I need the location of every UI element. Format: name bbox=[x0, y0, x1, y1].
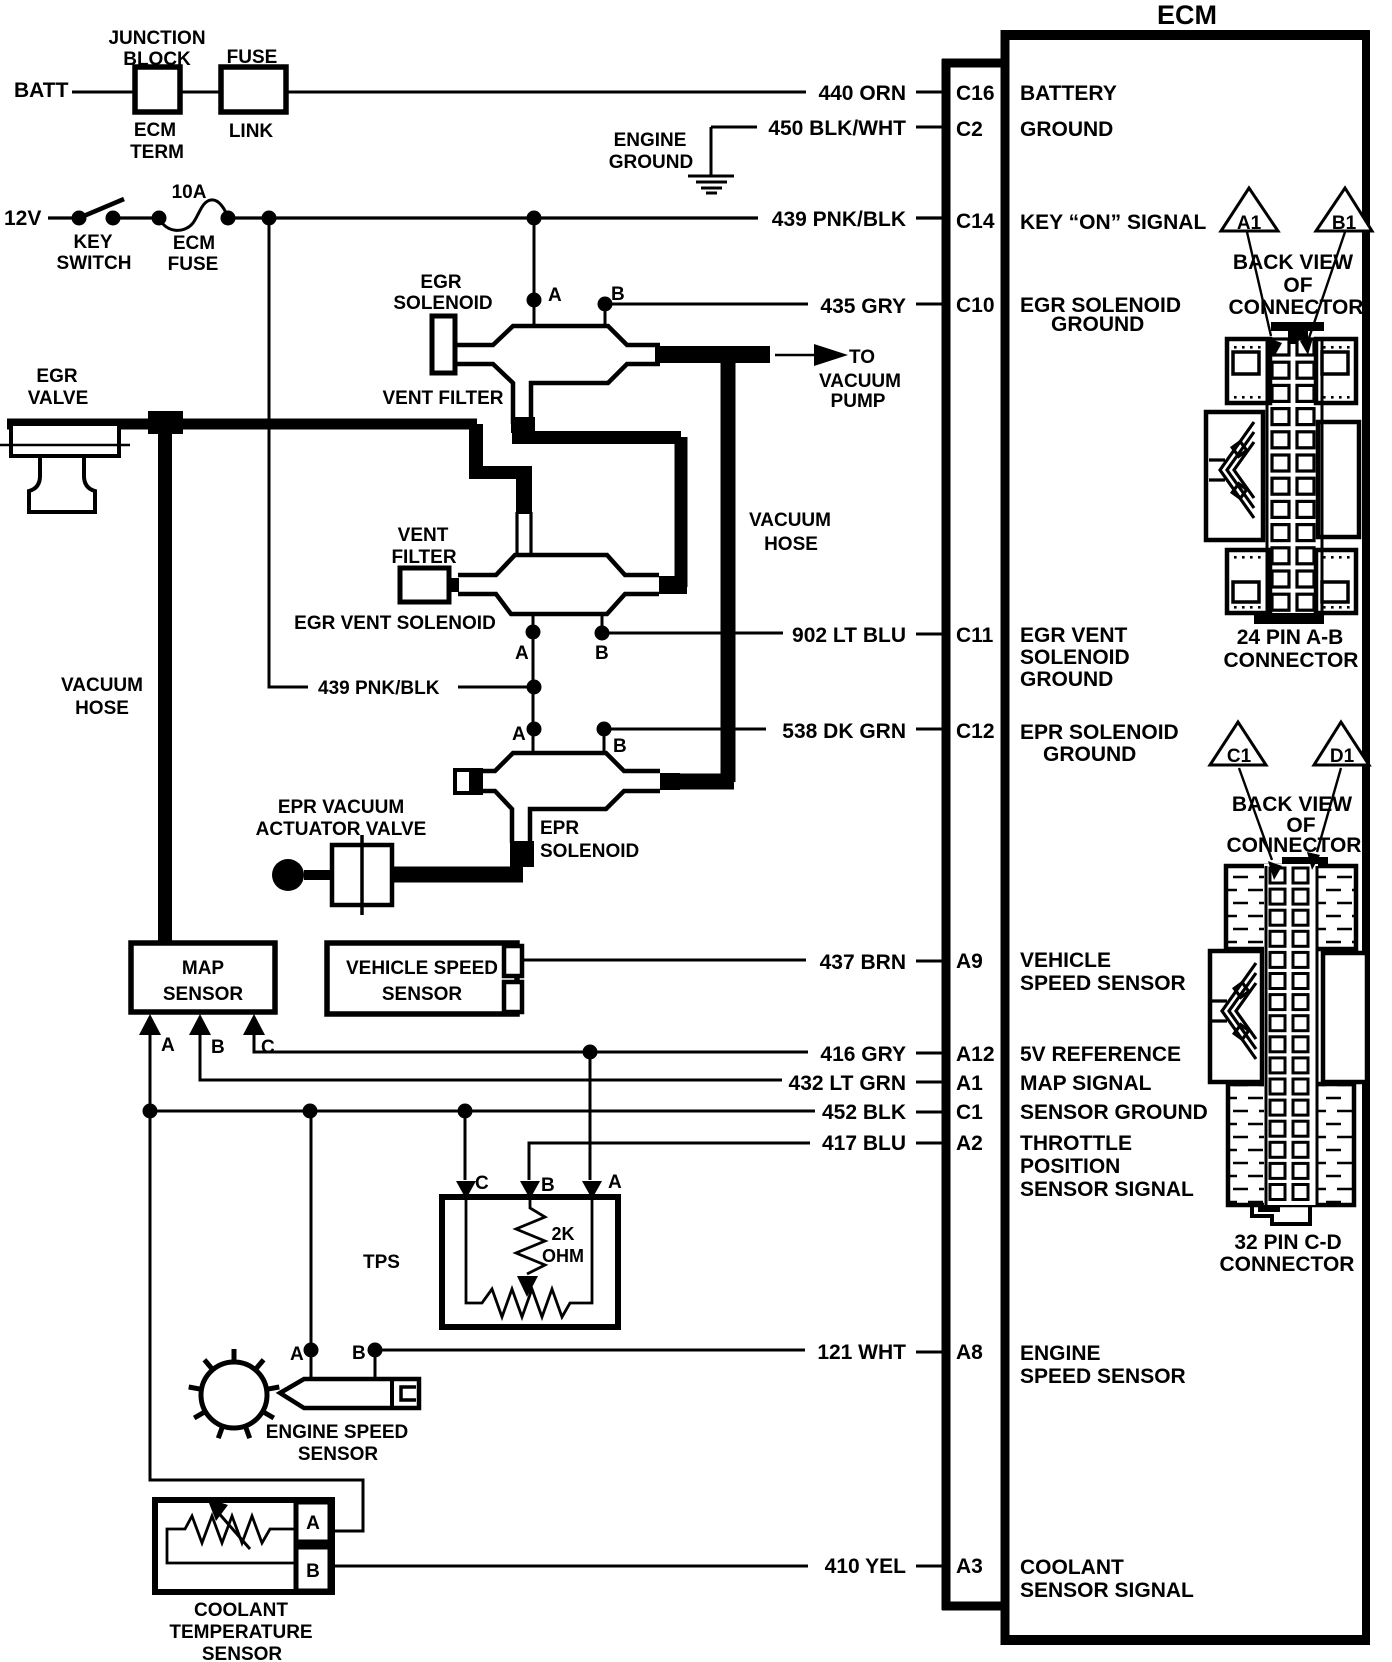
svg-text:VEHICLE: VEHICLE bbox=[1020, 949, 1111, 972]
junction dot at 465,1111 bbox=[458, 1104, 473, 1119]
svg-text:C11: C11 bbox=[956, 624, 994, 647]
32 pin: right latch block bbox=[1323, 953, 1367, 1082]
svg-text:B: B bbox=[352, 1343, 366, 1364]
vacuum hose: tee down right side to EPR solenoid bbox=[721, 348, 736, 782]
svg-text:SPEED SENSOR: SPEED SENSOR bbox=[1020, 1365, 1186, 1388]
EGR vent solenoid bbox=[458, 512, 659, 614]
svg-text:C2: C2 bbox=[956, 118, 983, 141]
vacuum hose: EGR valve top run bbox=[7, 419, 477, 430]
svg-text:OF: OF bbox=[1283, 274, 1312, 297]
junction dot at 150,1111 bbox=[143, 1104, 158, 1119]
svg-text:439 PNK/BLK: 439 PNK/BLK bbox=[772, 208, 906, 231]
24 pin: lower corner blocks bbox=[1227, 550, 1270, 613]
32 pin: center pin rows bbox=[1264, 864, 1318, 1205]
svg-text:CONNECTOR: CONNECTOR bbox=[1229, 296, 1364, 319]
coolant sensor variable resistor bbox=[167, 1516, 296, 1563]
svg-text:EGR VENT SOLENOID: EGR VENT SOLENOID bbox=[294, 613, 496, 634]
engine speed sensor pickup body bbox=[280, 1379, 419, 1408]
key switch lever bbox=[79, 199, 124, 218]
svg-text:24 PIN A-B: 24 PIN A-B bbox=[1237, 626, 1344, 649]
svg-text:SOLENOID: SOLENOID bbox=[1020, 646, 1130, 669]
svg-text:A1: A1 bbox=[956, 1072, 983, 1095]
svg-text:SOLENOID: SOLENOID bbox=[540, 841, 639, 862]
junction dot at 605,304 bbox=[598, 297, 613, 312]
junction dot at 534,687 bbox=[527, 680, 542, 695]
to-vacuum-pump arrow bbox=[775, 354, 816, 357]
svg-text:A: A bbox=[512, 724, 526, 745]
svg-text:LINK: LINK bbox=[229, 121, 274, 142]
svg-text:C14: C14 bbox=[956, 210, 995, 233]
wire engine speed sensor A vertical bbox=[310, 1111, 313, 1379]
svg-text:A1: A1 bbox=[1237, 213, 1262, 234]
junction dot at 310,1111 bbox=[303, 1104, 318, 1119]
svg-text:452 BLK: 452 BLK bbox=[822, 1101, 906, 1124]
svg-text:BLOCK: BLOCK bbox=[123, 49, 191, 70]
junction dot at 590,1052 bbox=[583, 1045, 598, 1060]
svg-text:CONNECTOR: CONNECTOR bbox=[1224, 649, 1359, 672]
svg-text:A2: A2 bbox=[956, 1132, 983, 1155]
svg-text:HOSE: HOSE bbox=[75, 698, 129, 719]
junction dot at 113,218 bbox=[106, 211, 121, 226]
svg-text:EPR VACUUM: EPR VACUUM bbox=[278, 797, 404, 818]
svg-text:C: C bbox=[261, 1037, 275, 1058]
32 pin: bottom tail bbox=[1252, 1205, 1310, 1224]
svg-text:B: B bbox=[211, 1037, 225, 1058]
svg-text:ENGINE SPEED: ENGINE SPEED bbox=[266, 1422, 409, 1443]
wire 12V to key switch bbox=[48, 216, 79, 219]
vent filter (EGR vent solenoid) bbox=[400, 568, 449, 602]
svg-text:VENT FILTER: VENT FILTER bbox=[382, 388, 503, 409]
svg-text:A: A bbox=[515, 643, 529, 664]
svg-text:A8: A8 bbox=[956, 1341, 983, 1364]
vehicle speed sensor bbox=[327, 943, 517, 1014]
triangle callout B1 bbox=[1316, 188, 1372, 231]
svg-text:BACK VIEW: BACK VIEW bbox=[1232, 793, 1352, 816]
svg-text:C1: C1 bbox=[1227, 746, 1252, 767]
svg-text:FUSE: FUSE bbox=[168, 254, 219, 275]
wire BATT to junction block bbox=[72, 91, 133, 94]
svg-text:C16: C16 bbox=[956, 82, 995, 105]
callout arrow B1 to connector bbox=[1309, 232, 1345, 338]
junction dot at 534,729 bbox=[527, 722, 542, 737]
svg-text:VACUUM: VACUUM bbox=[749, 510, 831, 531]
wire 452 BLK sensor ground (MAP A, engine speed A, TPS C to ECM C1) bbox=[150, 1034, 942, 1112]
TPS wiper track resistor bbox=[466, 1199, 592, 1317]
svg-text:EGR: EGR bbox=[36, 366, 77, 387]
svg-text:121 WHT: 121 WHT bbox=[817, 1341, 906, 1364]
svg-text:ECM: ECM bbox=[1157, 0, 1217, 30]
TPS (throttle position sensor) bbox=[442, 1197, 618, 1327]
junction dot at 375,1350 bbox=[368, 1343, 383, 1358]
svg-text:OHM: OHM bbox=[542, 1246, 584, 1266]
junction dot at 159,218 bbox=[152, 211, 167, 226]
svg-text:SENSOR GROUND: SENSOR GROUND bbox=[1020, 1101, 1208, 1124]
svg-text:THROTTLE: THROTTLE bbox=[1020, 1132, 1132, 1155]
svg-text:B: B bbox=[595, 643, 609, 664]
32 pin C-D connector (back view) bbox=[1210, 857, 1367, 1224]
svg-text:SENSOR SIGNAL: SENSOR SIGNAL bbox=[1020, 1178, 1194, 1201]
engine speed sensor gear bbox=[201, 1362, 267, 1428]
junction dot at 228,218 bbox=[221, 211, 236, 226]
svg-text:GROUND: GROUND bbox=[1020, 668, 1113, 691]
wire 440 ORN (fuse link to ECM C16) bbox=[288, 91, 942, 94]
24 pin: right latch block bbox=[1318, 422, 1359, 537]
svg-text:GROUND: GROUND bbox=[1043, 743, 1136, 766]
ECM box bbox=[1001, 30, 1010, 1645]
svg-text:A12: A12 bbox=[956, 1043, 995, 1066]
svg-text:SWITCH: SWITCH bbox=[57, 253, 132, 274]
svg-text:A: A bbox=[290, 1344, 304, 1365]
svg-text:VEHICLE SPEED: VEHICLE SPEED bbox=[346, 958, 498, 979]
svg-text:902 LT BLU: 902 LT BLU bbox=[792, 624, 906, 647]
wire 439 PNK/BLK (fuse to ECM C14) bbox=[228, 216, 942, 219]
svg-text:D1: D1 bbox=[1330, 746, 1355, 767]
svg-text:A3: A3 bbox=[956, 1555, 983, 1578]
svg-text:BACK VIEW: BACK VIEW bbox=[1233, 251, 1353, 274]
junction dot at 311,1350 bbox=[304, 1343, 319, 1358]
svg-text:437 BRN: 437 BRN bbox=[820, 951, 906, 974]
junction dot at 602,633 bbox=[595, 626, 610, 641]
wire 121 WHT (engine speed B to ECM A8) bbox=[375, 1350, 942, 1379]
vacuum hose: EPR solenoid bottom port to actuator valve bbox=[510, 841, 534, 867]
24 pin: left latch block with ribs bbox=[1206, 412, 1263, 540]
svg-text:SOLENOID: SOLENOID bbox=[393, 293, 492, 314]
svg-text:HOSE: HOSE bbox=[764, 534, 818, 555]
wire TPS C vertical bbox=[464, 1111, 467, 1180]
callout arrow A1 to connector bbox=[1247, 232, 1271, 336]
svg-text:10A: 10A bbox=[172, 182, 207, 203]
svg-text:SENSOR: SENSOR bbox=[202, 1644, 283, 1662]
svg-text:SENSOR: SENSOR bbox=[382, 984, 463, 1005]
TPS pin arrows C B A bbox=[456, 1181, 476, 1199]
svg-text:TPS: TPS bbox=[363, 1252, 400, 1273]
svg-text:FUSE: FUSE bbox=[227, 47, 278, 68]
engine ground symbol bbox=[688, 127, 734, 193]
svg-text:C: C bbox=[475, 1173, 489, 1194]
EPR vacuum actuator valve bbox=[272, 859, 304, 891]
junction dot at 79,218 bbox=[72, 211, 87, 226]
svg-text:ECM: ECM bbox=[173, 233, 215, 254]
svg-text:A: A bbox=[608, 1172, 622, 1193]
24 pin: center pin rows bbox=[1267, 341, 1322, 613]
MAP sensor bbox=[131, 943, 275, 1012]
vacuum hose: EGR solenoid bottom port to vent solenoid right port bbox=[511, 417, 535, 433]
svg-text:C1: C1 bbox=[956, 1101, 983, 1124]
svg-text:KEY “ON” SIGNAL: KEY “ON” SIGNAL bbox=[1020, 211, 1206, 234]
MAP pin arrows A B C bbox=[139, 1014, 161, 1035]
24 pin A-B connector (back view) bbox=[1206, 322, 1359, 624]
svg-text:A: A bbox=[548, 285, 562, 306]
svg-text:SENSOR SIGNAL: SENSOR SIGNAL bbox=[1020, 1579, 1194, 1602]
wire 902 LT BLU (vent solenoid B to ECM C11) bbox=[602, 614, 942, 634]
hose junction square on EGR valve run bbox=[148, 411, 183, 434]
wire 538 DK GRN (EPR solenoid B to ECM C12) bbox=[604, 729, 942, 753]
svg-text:SPEED SENSOR: SPEED SENSOR bbox=[1020, 972, 1186, 995]
svg-text:SENSOR: SENSOR bbox=[298, 1444, 379, 1465]
svg-text:450 BLK/WHT: 450 BLK/WHT bbox=[768, 117, 906, 140]
wire EGR solenoid pin A up to 12V line bbox=[533, 218, 536, 326]
svg-text:A: A bbox=[306, 1513, 320, 1534]
junction block (ECM TERM) bbox=[135, 67, 180, 112]
svg-text:CONNECTOR: CONNECTOR bbox=[1220, 1253, 1355, 1276]
triangle callout D1 bbox=[1314, 722, 1369, 765]
wire 410 YEL (coolant B to ECM A3) bbox=[331, 1565, 942, 1568]
wire EGR solenoid pin B to 435 GRY C10 bbox=[605, 304, 942, 326]
svg-text:KEY: KEY bbox=[73, 232, 112, 253]
wire junction block to fuse link bbox=[182, 91, 219, 94]
coolant temperature sensor bbox=[155, 1500, 332, 1592]
callout arrow C1 to connector bbox=[1239, 768, 1272, 860]
svg-text:ECM: ECM bbox=[134, 120, 176, 141]
wire MAP A down to coolant sensor A bbox=[150, 1111, 363, 1531]
vacuum hose: EGR solenoid output to tee bbox=[655, 346, 770, 363]
svg-text:432 LT GRN: 432 LT GRN bbox=[789, 1072, 906, 1095]
svg-text:COOLANT: COOLANT bbox=[194, 1600, 288, 1621]
wire 417 BLU throttle position signal (TPS B to ECM A2) bbox=[529, 1143, 942, 1180]
EPR solenoid bbox=[455, 753, 660, 843]
svg-text:5V REFERENCE: 5V REFERENCE bbox=[1020, 1043, 1181, 1066]
svg-text:VACUUM: VACUUM bbox=[61, 675, 143, 696]
svg-text:EPR: EPR bbox=[540, 818, 579, 839]
wire key switch to ECM fuse bbox=[113, 216, 159, 219]
svg-text:MAP SIGNAL: MAP SIGNAL bbox=[1020, 1072, 1152, 1095]
wire EGR vent solenoid pin A chain down to EPR solenoid pin A bbox=[532, 614, 535, 753]
junction dot at 604,729 bbox=[597, 722, 612, 737]
EGR solenoid bbox=[432, 316, 660, 424]
svg-text:32 PIN C-D: 32 PIN C-D bbox=[1234, 1231, 1341, 1254]
svg-text:B: B bbox=[306, 1561, 320, 1582]
vacuum hose: junction block to MAP sensor (left vertical) bbox=[158, 425, 172, 941]
svg-text:440 ORN: 440 ORN bbox=[818, 82, 906, 105]
svg-text:416 GRY: 416 GRY bbox=[820, 1043, 906, 1066]
svg-text:TO: TO bbox=[849, 347, 875, 368]
svg-text:B: B bbox=[611, 284, 625, 305]
svg-text:B: B bbox=[541, 1175, 555, 1196]
svg-text:MAP: MAP bbox=[182, 958, 225, 979]
wire 437 BRN (VSS to ECM A9) bbox=[523, 960, 942, 961]
svg-text:C10: C10 bbox=[956, 294, 995, 317]
wire 432 LT GRN map signal (MAP B to ECM A1) bbox=[200, 1034, 942, 1082]
wire 416 GRY 5V reference (MAP C / TPS A to ECM A12) bbox=[254, 1034, 942, 1053]
svg-text:COOLANT: COOLANT bbox=[1020, 1556, 1124, 1579]
triangle callout A1 bbox=[1221, 188, 1278, 231]
svg-text:2K: 2K bbox=[551, 1224, 574, 1244]
svg-text:EGR VENT: EGR VENT bbox=[1020, 624, 1128, 647]
wire 450 BLK/WHT (ground to ECM C2) bbox=[711, 126, 942, 129]
svg-text:410 YEL: 410 YEL bbox=[825, 1555, 907, 1578]
svg-text:ENGINE: ENGINE bbox=[614, 130, 687, 151]
svg-text:CONNECTOR: CONNECTOR bbox=[1227, 834, 1362, 857]
svg-text:JUNCTION: JUNCTION bbox=[108, 28, 205, 49]
wire MAP C vertical junction to TPS A bbox=[589, 1052, 592, 1180]
vacuum hose: staircase down to EGR vent solenoid top port bbox=[469, 424, 483, 466]
svg-text:A: A bbox=[161, 1035, 175, 1056]
svg-text:GROUND: GROUND bbox=[1020, 118, 1113, 141]
EGR valve bbox=[0, 424, 130, 512]
junction dot at 269,218 bbox=[262, 211, 277, 226]
junction dot at 534,300 bbox=[527, 293, 542, 308]
svg-text:417 BLU: 417 BLU bbox=[822, 1132, 906, 1155]
svg-text:439 PNK/BLK: 439 PNK/BLK bbox=[318, 678, 440, 699]
svg-text:VENT: VENT bbox=[398, 525, 449, 546]
svg-text:BATTERY: BATTERY bbox=[1020, 82, 1117, 105]
junction dot at 533,632 bbox=[526, 625, 541, 640]
svg-text:POSITION: POSITION bbox=[1020, 1155, 1120, 1178]
svg-text:EPR SOLENOID: EPR SOLENOID bbox=[1020, 721, 1179, 744]
svg-text:TERM: TERM bbox=[130, 142, 184, 163]
fuse link bbox=[221, 67, 286, 112]
ECM fuse squiggle bbox=[159, 200, 228, 230]
wire key-on branch down from 12V line bbox=[269, 218, 534, 687]
svg-text:TEMPERATURE: TEMPERATURE bbox=[169, 1622, 312, 1643]
svg-text:VALVE: VALVE bbox=[28, 388, 89, 409]
32 pin: left latch block with ribs bbox=[1210, 951, 1262, 1082]
svg-text:VACUUM: VACUUM bbox=[819, 371, 901, 392]
svg-text:B: B bbox=[613, 736, 627, 757]
svg-text:B1: B1 bbox=[1332, 213, 1357, 234]
svg-text:SENSOR: SENSOR bbox=[163, 984, 244, 1005]
svg-text:PUMP: PUMP bbox=[831, 391, 886, 412]
svg-text:A9: A9 bbox=[956, 950, 983, 973]
svg-text:12V: 12V bbox=[4, 207, 41, 230]
TPS 2K OHM resistor bbox=[516, 1199, 545, 1274]
triangle callout C1 bbox=[1210, 722, 1266, 765]
svg-text:538 DK GRN: 538 DK GRN bbox=[782, 720, 906, 743]
svg-text:FILTER: FILTER bbox=[391, 547, 456, 568]
svg-text:ENGINE: ENGINE bbox=[1020, 1342, 1101, 1365]
ECM pin column bbox=[942, 30, 1370, 1645]
svg-text:ACTUATOR VALVE: ACTUATOR VALVE bbox=[256, 819, 427, 840]
callout arrow D1 to connector bbox=[1317, 768, 1341, 852]
svg-text:BATT: BATT bbox=[14, 79, 69, 102]
svg-text:EGR: EGR bbox=[420, 272, 461, 293]
svg-text:GROUND: GROUND bbox=[609, 152, 693, 173]
svg-text:435 GRY: 435 GRY bbox=[820, 295, 906, 318]
svg-text:GROUND: GROUND bbox=[1051, 313, 1144, 336]
junction dot at 534,218 bbox=[527, 211, 542, 226]
svg-text:C12: C12 bbox=[956, 720, 995, 743]
